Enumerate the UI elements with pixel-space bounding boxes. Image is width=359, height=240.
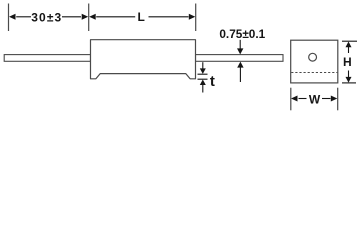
centerline (dashed) (291, 72, 337, 74)
dimension t (standoff height) (198, 62, 215, 92)
svg-text:0.75±0.1: 0.75±0.1 (219, 27, 265, 41)
svg-text:L: L (138, 10, 145, 24)
svg-text:H: H (343, 55, 352, 69)
svg-text:30±3: 30±3 (31, 11, 62, 25)
dimension L (body length) (89, 10, 195, 24)
dimension W (case width) (291, 88, 338, 111)
extension line: body right (195, 4, 197, 32)
lead hole (309, 53, 317, 61)
dimension 0.75±0.1 (lead diameter) (219, 27, 265, 82)
end view: case outline (291, 40, 338, 83)
dimension 30±3 (lead length) (9, 11, 88, 25)
right lead (196, 55, 284, 62)
extension line: lead right / body left (88, 4, 90, 32)
dimension H (case height) (342, 41, 357, 83)
left lead (4, 55, 90, 62)
svg-text:W: W (309, 92, 321, 106)
svg-text:t: t (210, 73, 215, 90)
extension line: lead left end (8, 4, 10, 32)
resistor body (side view, cement case) (91, 40, 196, 79)
